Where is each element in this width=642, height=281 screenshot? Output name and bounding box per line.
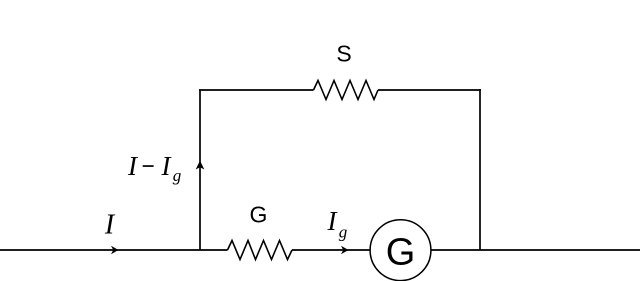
galvanometer U1 circle <box>370 220 431 281</box>
arrow: current I on main wire <box>111 246 119 255</box>
svg-text:g: g <box>173 166 182 185</box>
svg-text:G: G <box>250 202 268 228</box>
svg-text:I: I <box>127 151 139 181</box>
wire: bottom main left segment <box>0 249 228 251</box>
svg-text:G: G <box>386 232 416 274</box>
svg-text:S: S <box>336 41 351 67</box>
resistor S (zigzag) <box>314 81 379 100</box>
arrow: Ig toward galvanometer <box>341 246 349 255</box>
wire: bottom right segment after galvanometer <box>429 249 640 251</box>
svg-text:I: I <box>161 151 173 181</box>
wire: top right segment <box>378 89 481 91</box>
svg-text:g: g <box>339 223 348 242</box>
svg-text:I: I <box>104 210 116 241</box>
wire: left vertical branch <box>199 90 201 251</box>
resistor G (zigzag) <box>228 241 293 260</box>
wire: top left segment <box>199 89 314 91</box>
svg-text:I: I <box>327 206 339 236</box>
arrow: I - Ig up on left branch <box>196 161 205 170</box>
wire: right vertical branch <box>479 89 481 250</box>
wire: bottom between resistor G and galvanometer <box>292 249 372 251</box>
